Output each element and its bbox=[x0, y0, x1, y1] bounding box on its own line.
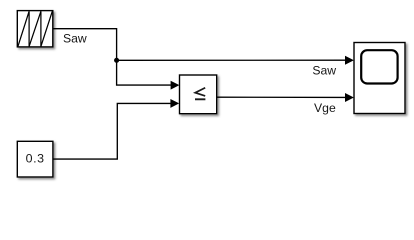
arrowhead into relational operator input 2 bbox=[170, 99, 179, 108]
signal generator block (sawtooth source) bbox=[17, 11, 53, 47]
svg-text:Saw: Saw bbox=[63, 31, 87, 45]
relational operator block U1 bbox=[180, 75, 217, 114]
arrowhead into scope input 2 bbox=[345, 93, 354, 102]
constant block 0.3 bbox=[17, 141, 53, 177]
wire: relational operator output to scope input 2 bbox=[217, 96, 346, 98]
arrowhead into relational operator input 1 bbox=[171, 81, 180, 90]
wire: sawtooth output to relational operator input 1 bbox=[53, 29, 171, 85]
scope screen bbox=[361, 50, 397, 83]
sawtooth waveform icon bbox=[18, 11, 52, 46]
scope block bbox=[354, 43, 405, 114]
wire: constant 0.3 to relational operator input 2 bbox=[53, 103, 171, 159]
svg-text:0.3: 0.3 bbox=[26, 151, 45, 165]
wire: junction to scope input 1 bbox=[117, 59, 346, 61]
junction node bbox=[114, 58, 119, 63]
less-than-or-equal symbol bbox=[195, 88, 205, 100]
svg-text:Vge: Vge bbox=[314, 101, 336, 115]
arrowhead into scope input 1 bbox=[345, 56, 354, 65]
svg-text:Saw: Saw bbox=[312, 63, 336, 77]
